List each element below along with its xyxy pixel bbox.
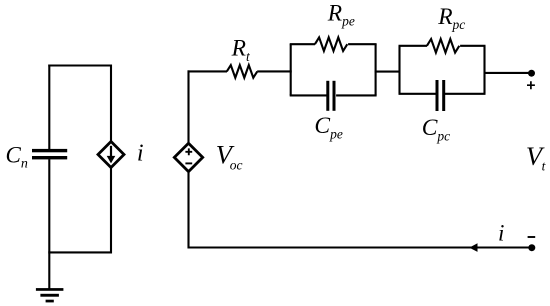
label Rpc [437,4,465,32]
current arrow i (bottom rail) [469,243,477,252]
label i (bottom rail) [498,221,504,246]
wire: current source top lead [110,65,112,144]
wire: top rail to positive terminal [485,72,529,74]
capacitor Cpe [326,81,335,111]
node: negative terminal [528,244,535,251]
wire: top rail left segment [188,70,228,72]
label i (current source) [137,140,144,166]
dependent current source i [98,142,124,168]
label Rt [231,35,251,64]
wire: Rpe/Cpe frame right edge [375,44,377,95]
wire: Rpc/Cpc frame top edge [399,45,486,47]
wire: Voc bottom lead [187,170,189,248]
label - (negative terminal) [528,236,536,238]
wire: Rpe/Cpe frame left edge [290,44,292,95]
wire: current source bottom lead [110,166,112,253]
ground [36,252,64,302]
label Cpc [422,115,450,143]
capacitor Cn [32,149,67,160]
wire: Rpe/Cpe frame bottom edge [290,94,377,96]
resistor Rpc [427,39,459,53]
label Rpe [327,0,355,28]
label Cn [6,142,28,171]
resistor Rpe [315,37,347,51]
wire: left loop top [48,64,112,66]
wire: Rpe/Cpe frame top edge [290,43,377,45]
capacitor Cpc [436,80,446,111]
label + (positive terminal) [527,81,535,89]
label Cpe [314,113,342,141]
wire: Rpc/Cpc frame bottom edge [399,93,486,95]
node: positive terminal [528,70,535,77]
wire: Rpc/Cpc frame left edge [398,46,400,94]
svg-text:i: i [137,140,144,166]
label Vt [526,141,547,174]
resistor Rt [227,65,257,78]
dependent voltage source Voc [174,143,202,171]
wire: Voc top lead [187,70,189,144]
wire: between RC pairs [375,71,401,73]
wire: top rail to first RC pair [257,70,292,72]
wire: bottom rail [188,246,529,248]
wire: left loop bottom [48,251,112,253]
wire: Cn bottom lead [48,159,50,252]
wire: Rpc/Cpc frame right edge [483,46,485,94]
wire: Cn top lead [48,65,50,150]
label Voc [216,140,243,173]
svg-text:i: i [498,221,504,246]
